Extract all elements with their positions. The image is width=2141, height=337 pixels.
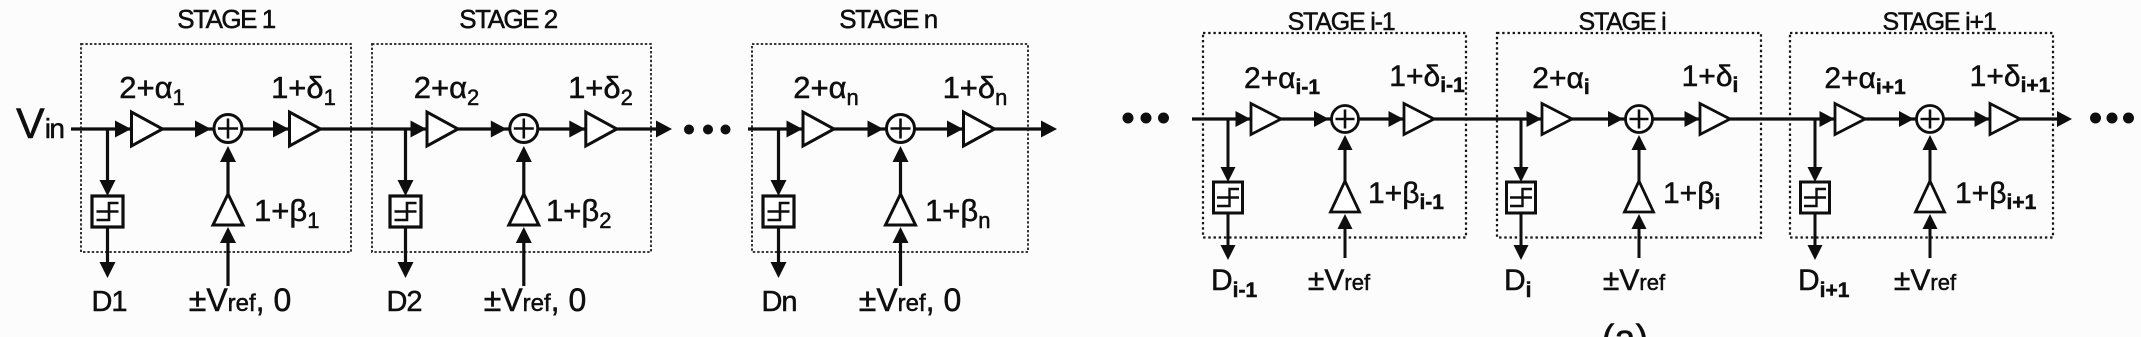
svg-text:STAGE i-1: STAGE i-1 — [1288, 8, 1395, 36]
amplifier 1+beta i-1 (feedback) — [1331, 181, 1360, 212]
arrow DAC input into 1+beta i-1 — [1338, 214, 1353, 229]
amplifier 2+alpha i-1 — [1251, 104, 1281, 135]
ellipsis dots right of stage i+1 — [2090, 113, 2134, 124]
summing node stage i — [1626, 106, 1653, 133]
arrow into amplifier 1+delta2 — [569, 121, 585, 138]
arrow into amplifier 2+alpha2 — [411, 121, 427, 138]
svg-text:±Vref: ±Vref — [1308, 264, 1371, 297]
arrow digital output D i — [1514, 245, 1529, 260]
amplifier 1+beta i (feedback) — [1625, 181, 1654, 212]
arrow into summing node stage i+1 — [1899, 111, 1914, 127]
amplifier 1+delta i+1 — [1990, 104, 2020, 135]
svg-text:±Vref: ±Vref — [1603, 264, 1666, 297]
arrow into quantizer stage i+1 — [1808, 167, 1823, 182]
wire from Vref stage 1 — [226, 241, 229, 286]
wire quantizer output stage i-1 — [1227, 213, 1230, 248]
node branch to sub-ADC stage 1 — [106, 129, 109, 183]
amplifier 1+delta1 — [290, 112, 321, 146]
svg-text:1+δ2: 1+δ2 — [568, 70, 633, 110]
svg-text:STAGE 2: STAGE 2 — [459, 4, 557, 34]
arrow into amplifier 2+alpha i — [1527, 111, 1542, 127]
wire from Vref stage i+1 — [1929, 227, 1932, 258]
amplifier 1+deltan — [964, 112, 995, 146]
arrow into quantizer stage i-1 — [1221, 167, 1236, 182]
svg-text:1+δn: 1+δn — [943, 70, 1008, 110]
arrow digital output D2 — [398, 262, 414, 278]
arrow into amplifier 1+deltan — [947, 121, 963, 138]
svg-text:STAGE n: STAGE n — [839, 4, 936, 34]
arrow DAC input into 1+beta i — [1632, 214, 1647, 229]
wire quantizer output stage 1 — [106, 227, 109, 265]
svg-text:1+δi-1: 1+δi-1 — [1389, 60, 1465, 97]
wire feedback stage i+1 — [1929, 148, 1932, 185]
svg-text:2+αi-1: 2+αi-1 — [1244, 62, 1320, 99]
arrow feedback into summer stage n — [893, 146, 909, 162]
arrow into summing node stage 2 — [491, 121, 507, 138]
arrow into quantizer stage n — [771, 180, 787, 196]
arrow into summing node stage i — [1608, 111, 1623, 127]
stage n box — [752, 44, 1028, 252]
ellipsis dots left of stage i-1 — [1123, 113, 1170, 124]
svg-text:D2: D2 — [386, 286, 421, 318]
svg-text:STAGE i+1: STAGE i+1 — [1882, 8, 1995, 36]
amplifier 1+delta2 — [586, 112, 617, 146]
summing node stage 2 — [510, 115, 538, 143]
amplifier 1+beta2 (feedback) — [509, 194, 539, 225]
stage i+1 box — [1790, 33, 2053, 238]
quantizer comparator stage n — [763, 196, 794, 227]
amplifier 2+alpha2 — [427, 112, 458, 146]
wire feedback stage n — [899, 160, 902, 198]
svg-text:Di-1: Di-1 — [1211, 264, 1257, 302]
quantizer comparator stage 1 — [92, 196, 123, 227]
wire from Vref stage i — [1638, 227, 1641, 258]
stage 1 box — [81, 44, 351, 252]
arrow into summing node stage n — [868, 121, 884, 138]
arrow into amplifier 1+delta i — [1685, 111, 1700, 127]
svg-text:2+α2: 2+α2 — [414, 70, 480, 110]
arrow into quantizer stage i — [1514, 167, 1529, 182]
svg-text:2+αn: 2+αn — [793, 70, 859, 110]
arrow feedback into summer stage 2 — [516, 146, 532, 162]
wire feedback stage i — [1638, 148, 1641, 185]
ellipsis dots between stage 2 and stage n — [684, 125, 731, 135]
arrow into summing node stage i-1 — [1314, 111, 1329, 127]
arrow stage 2 output — [656, 121, 672, 138]
amplifier 1+beta i+1 (feedback) — [1916, 181, 1945, 212]
wire from Vref stage 2 — [522, 241, 525, 286]
amplifier 1+delta i-1 — [1404, 104, 1434, 135]
svg-text:1+δi: 1+δi — [1682, 60, 1739, 97]
wire main signal path right diagram — [1192, 117, 2058, 120]
arrow digital output D i+1 — [1808, 245, 1823, 260]
summing node stage n — [887, 115, 915, 143]
arrow DAC input into 1+beta i+1 — [1923, 214, 1938, 229]
svg-text:STAGE 1: STAGE 1 — [177, 4, 275, 34]
wire from Vref stage i-1 — [1344, 227, 1347, 258]
arrow DAC input into 1+beta1 — [220, 227, 236, 243]
amplifier 1+delta i — [1700, 104, 1730, 135]
wire main signal path stage n — [748, 127, 1042, 130]
wire quantizer output stage 2 — [404, 227, 407, 265]
arrow into quantizer stage 1 — [100, 180, 116, 196]
quantizer comparator stage i — [1507, 182, 1536, 213]
node branch to sub-ADC stage 2 — [404, 129, 407, 183]
arrow DAC input into 1+betan — [893, 227, 909, 243]
svg-text:1+βi-1: 1+βi-1 — [1368, 177, 1444, 214]
amplifier 2+alphan — [803, 112, 834, 146]
svg-text:STAGE i: STAGE i — [1579, 8, 1666, 36]
arrow into amplifier 1+delta i+1 — [1975, 111, 1990, 127]
svg-text:1+βn: 1+βn — [925, 193, 990, 233]
wire feedback stage i-1 — [1344, 148, 1347, 185]
arrow digital output Dn — [771, 262, 787, 278]
summing node stage 1 — [214, 115, 242, 143]
svg-text:1+βi: 1+βi — [1663, 177, 1720, 214]
quantizer comparator stage i-1 — [1214, 182, 1243, 213]
arrow into amplifier 1+delta1 — [273, 121, 289, 138]
svg-text:±Vref, 0: ±Vref, 0 — [859, 282, 962, 318]
arrow into amplifier 2+alphan — [787, 121, 803, 138]
svg-text:Di+1: Di+1 — [1798, 264, 1850, 302]
arrow digital output D1 — [100, 262, 116, 278]
stage 2 box — [372, 44, 651, 252]
svg-text:Dn: Dn — [761, 286, 796, 318]
svg-text:1+βi+1: 1+βi+1 — [1955, 177, 2037, 214]
quantizer comparator stage 2 — [390, 196, 421, 227]
svg-text:±Vref, 0: ±Vref, 0 — [189, 282, 292, 318]
arrow right diagram output — [2057, 111, 2072, 127]
arrow feedback into summer stage 1 — [220, 146, 236, 162]
node branch to sub-ADC stage i-1 — [1227, 119, 1230, 169]
arrow DAC input into 1+beta2 — [516, 227, 532, 243]
arrow into amplifier 2+alpha1 — [115, 121, 131, 138]
wire from Vref stage n — [899, 241, 902, 286]
arrow stage n output — [1041, 121, 1057, 138]
node branch to sub-ADC stage n — [777, 129, 780, 183]
arrow into amplifier 2+alpha i+1 — [1820, 111, 1835, 127]
svg-text:1+δi+1: 1+δi+1 — [1970, 60, 2051, 97]
svg-text:(a): (a) — [1602, 318, 1648, 337]
svg-text:1+β1: 1+β1 — [254, 193, 319, 233]
summing node stage i+1 — [1917, 106, 1944, 133]
svg-text:Vin: Vin — [16, 100, 63, 148]
amplifier 2+alpha i — [1542, 104, 1572, 135]
amplifier 1+betan (feedback) — [886, 194, 916, 225]
arrow digital output D i-1 — [1221, 245, 1236, 260]
amplifier 2+alpha i+1 — [1835, 104, 1865, 135]
svg-text:2+αi+1: 2+αi+1 — [1824, 62, 1906, 99]
node branch to sub-ADC stage i — [1520, 119, 1523, 169]
amplifier 1+beta1 (feedback) — [213, 194, 243, 225]
arrow feedback into summer stage i — [1632, 135, 1647, 150]
wire main signal path stage 1-2 — [71, 127, 657, 130]
svg-text:±Vref: ±Vref — [1894, 264, 1957, 297]
svg-text:D1: D1 — [91, 286, 126, 318]
quantizer comparator stage i+1 — [1801, 182, 1830, 213]
svg-text:1+δ1: 1+δ1 — [271, 70, 336, 110]
arrow into quantizer stage 2 — [398, 180, 414, 196]
arrow feedback into summer stage i+1 — [1923, 135, 1938, 150]
wire quantizer output stage i+1 — [1814, 213, 1817, 248]
summing node stage i-1 — [1332, 106, 1359, 133]
wire feedback stage 1 — [226, 160, 229, 198]
arrow into amplifier 2+alpha i-1 — [1236, 111, 1251, 127]
arrow into amplifier 1+delta i-1 — [1389, 111, 1404, 127]
wire quantizer output stage n — [777, 227, 780, 265]
svg-text:1+β2: 1+β2 — [546, 193, 611, 233]
svg-text:±Vref, 0: ±Vref, 0 — [484, 282, 587, 318]
wire feedback stage 2 — [522, 160, 525, 198]
stage i box — [1497, 33, 1761, 238]
arrow feedback into summer stage i-1 — [1338, 135, 1353, 150]
stage i-1 box — [1203, 33, 1466, 238]
wire quantizer output stage i — [1520, 213, 1523, 248]
svg-text:2+αi: 2+αi — [1532, 62, 1589, 99]
amplifier 2+alpha1 — [132, 112, 163, 146]
node branch to sub-ADC stage i+1 — [1814, 119, 1817, 169]
arrow into summing node stage 1 — [195, 121, 211, 138]
svg-text:Di: Di — [1504, 264, 1532, 302]
svg-text:2+α1: 2+α1 — [119, 70, 185, 110]
